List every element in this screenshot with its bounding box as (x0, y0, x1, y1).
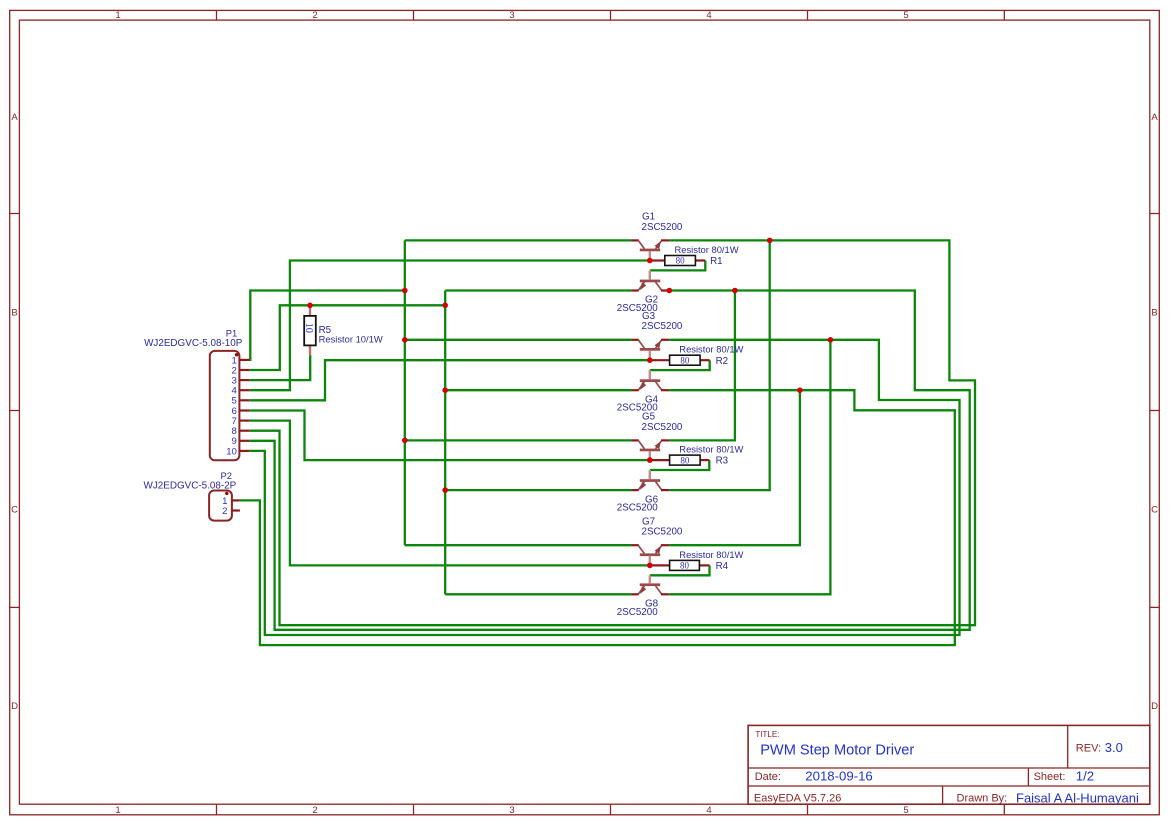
wire G3 collector row (405, 339, 632, 341)
transistor G5 (2SC5200, NPN) (632, 440, 670, 460)
transistor G6 (2SC5200, NPN) (632, 470, 670, 490)
ruler tick marks left (10, 214, 20, 608)
wire R3 output to G6 base (650, 460, 710, 470)
svg-text:Resistor 10/1W: Resistor 10/1W (319, 334, 383, 345)
svg-text:R4: R4 (716, 561, 729, 572)
svg-text:Resistor 80/1W: Resistor 80/1W (679, 549, 743, 560)
P2 pin1 marker dot (225, 492, 228, 495)
svg-text:2018-09-16: 2018-09-16 (805, 768, 872, 783)
title block row divider 2 (748, 785, 1150, 787)
wire P1 pin3 to R5 bottom (250, 355, 311, 380)
wire output B net: G2 collector to P1 pin9 via right bus (250, 291, 970, 630)
junction output A branch (767, 238, 773, 244)
svg-text:2SC5200: 2SC5200 (642, 321, 683, 332)
svg-text:B: B (1151, 307, 1157, 318)
svg-text:D: D (11, 701, 18, 712)
wire output A branch to G6 collector (669, 240, 769, 490)
svg-text:R2: R2 (716, 356, 729, 367)
title block Sheet divider (1027, 768, 1029, 786)
transistor G4 (2SC5200, NPN) (632, 370, 670, 390)
svg-text:Drawn By:: Drawn By: (957, 793, 1008, 805)
svg-text:1: 1 (115, 805, 120, 816)
ruler numbers top 1-5 (115, 10, 908, 21)
svg-text:WJ2EDGVC-5.08-10P: WJ2EDGVC-5.08-10P (144, 338, 243, 349)
transistor G2 (2SC5200, NPN) (632, 270, 670, 290)
svg-text:PWM Step Motor Driver: PWM Step Motor Driver (760, 743, 914, 759)
ruler tick marks right (1150, 214, 1160, 608)
svg-text:R3: R3 (716, 456, 729, 467)
svg-text:REV:: REV: (1076, 742, 1101, 754)
wire R1 output to G2 base (650, 261, 706, 271)
wire emitter rail vertical bus (444, 291, 446, 595)
connector P2 WJ2EDGVC-5.08-2P (209, 491, 240, 521)
ruler numbers bottom 1-5 (115, 805, 908, 816)
svg-text:4: 4 (706, 10, 711, 21)
wire R2 output to G4 base (650, 360, 710, 370)
title block REV divider (1067, 725, 1069, 768)
connector P1 WJ2EDGVC-5.08-10P (210, 351, 250, 460)
junction V+ rail / G5 collector (402, 438, 408, 444)
wire P1 pin6 to G5 base row (250, 411, 650, 461)
svg-text:Date:: Date: (755, 771, 781, 783)
wire output C branch to G8 collector (669, 340, 830, 595)
junction V+ rail / G3 collector (402, 337, 408, 343)
junction output B branch (732, 288, 738, 294)
resistor R1 80/1W (650, 256, 706, 266)
svg-text:2SC5200: 2SC5200 (642, 222, 683, 233)
wire P1 pin5 to G3 base row (250, 360, 650, 400)
ruler letters right A-D (1151, 112, 1158, 712)
title block row divider 1 (748, 767, 1150, 769)
svg-text:D: D (1151, 701, 1158, 712)
svg-text:2SC5200: 2SC5200 (642, 422, 683, 433)
svg-text:1/2: 1/2 (1076, 768, 1094, 783)
junction R5 top (307, 303, 313, 309)
junction G3 base / R2 (647, 357, 653, 363)
svg-text:2: 2 (312, 805, 317, 816)
junction emitter rail / R5 row (442, 303, 448, 309)
junction output D branch (797, 387, 803, 393)
junction V+ rail / pin1 (402, 288, 408, 294)
svg-text:2SC5200: 2SC5200 (617, 503, 658, 514)
svg-text:3.0: 3.0 (1105, 740, 1123, 755)
svg-text:Resistor 80/1W: Resistor 80/1W (679, 444, 743, 455)
title block outline (748, 725, 1150, 804)
junction emitter rail / G6 emitter (442, 487, 448, 493)
resistor R2 80/1W (650, 355, 710, 365)
svg-text:Sheet:: Sheet: (1034, 771, 1066, 783)
svg-text:10: 10 (226, 446, 237, 457)
wire G2 emitter row (445, 289, 631, 291)
ruler letters left A-D (11, 112, 18, 712)
wire V+ rail vertical bus (404, 240, 406, 545)
svg-text:WJ2EDGVC-5.08-2P: WJ2EDGVC-5.08-2P (144, 481, 237, 492)
svg-text:C: C (11, 504, 18, 515)
svg-text:80: 80 (680, 455, 690, 465)
svg-text:2: 2 (222, 506, 227, 517)
svg-text:3: 3 (509, 805, 514, 816)
wire P1 pin4 to G1 base row (250, 261, 650, 391)
wire output C net: G3 emitter to P1 pin10 via right bus (250, 340, 960, 635)
svg-text:Resistor 80/1W: Resistor 80/1W (675, 244, 739, 255)
svg-text:5: 5 (903, 10, 908, 21)
svg-text:A: A (1151, 112, 1158, 123)
svg-text:Resistor 80/1W: Resistor 80/1W (679, 344, 743, 355)
transistor G7 (2SC5200, NPN) (632, 545, 670, 565)
svg-text:P1: P1 (226, 327, 237, 338)
P2 pin numbers 1-2 (222, 496, 227, 517)
P1 pin1 marker dot (235, 353, 238, 356)
svg-text:C: C (1151, 504, 1158, 515)
transistor G8 (2SC5200, NPN) (632, 575, 670, 594)
wire P1 pin1 to V+ rail (250, 291, 405, 360)
svg-text:80: 80 (680, 561, 690, 571)
junction G2 collector (667, 288, 673, 294)
svg-text:R1: R1 (710, 256, 723, 267)
svg-text:80: 80 (676, 256, 686, 266)
wire P1 pin2 to emitter rail via R5 node (250, 305, 446, 370)
P1 pin numbers 1-10 (226, 355, 237, 457)
transistor G3 (2SC5200, NPN) (632, 340, 670, 360)
wire G8 emitter row (445, 593, 631, 595)
resistor R5 10/1W (vertical) (303, 305, 316, 355)
svg-text:80: 80 (680, 355, 690, 365)
svg-text:Faisal A Al-Humayani: Faisal A Al-Humayani (1016, 790, 1139, 805)
svg-text:2SC5200: 2SC5200 (642, 527, 683, 538)
junction G1 base / R1 (647, 258, 653, 264)
wire R4 output to G8 base (650, 565, 710, 575)
svg-text:3: 3 (509, 10, 514, 21)
junction G7 base / R4 (647, 563, 653, 569)
ruler tick marks top (217, 10, 1005, 20)
wire output D net: G4 collector to P2 pin1 via right bus (240, 390, 955, 645)
wire G7 collector row (405, 544, 632, 546)
wire output B branch to G5 emitter (669, 291, 735, 441)
svg-text:B: B (11, 307, 17, 318)
wire G4 emitter row (445, 389, 631, 391)
wire output A net: G1 emitter to P1 pin8 via right bus (250, 240, 975, 625)
title block DrawnBy divider (942, 786, 944, 804)
svg-text:P2: P2 (221, 470, 232, 481)
svg-text:A: A (11, 112, 18, 123)
svg-text:TITLE:: TITLE: (755, 730, 779, 739)
wire G6 emitter row (445, 489, 631, 491)
ruler tick marks bottom (217, 804, 1005, 815)
svg-text:5: 5 (903, 805, 908, 816)
junction output C branch (828, 337, 834, 343)
resistor R3 80/1W (650, 455, 710, 465)
svg-text:2SC5200: 2SC5200 (617, 607, 658, 618)
svg-text:2: 2 (312, 10, 317, 21)
svg-text:EasyEDA V5.7.26: EasyEDA V5.7.26 (754, 793, 841, 805)
wire G1 collector row (405, 239, 632, 241)
junction G5 base / R3 (647, 457, 653, 463)
svg-text:4: 4 (706, 805, 711, 816)
wire P1 pin7 to G7 base row (250, 421, 650, 566)
transistor G1 (2SC5200, NPN) (632, 240, 670, 260)
junction emitter rail / G4 emitter (442, 387, 448, 393)
wire G5 collector row (405, 439, 632, 441)
wire output D branch to G7 emitter (669, 390, 800, 545)
svg-text:10: 10 (303, 323, 314, 333)
resistor R4 80/1W (650, 560, 710, 570)
svg-text:1: 1 (115, 10, 120, 21)
